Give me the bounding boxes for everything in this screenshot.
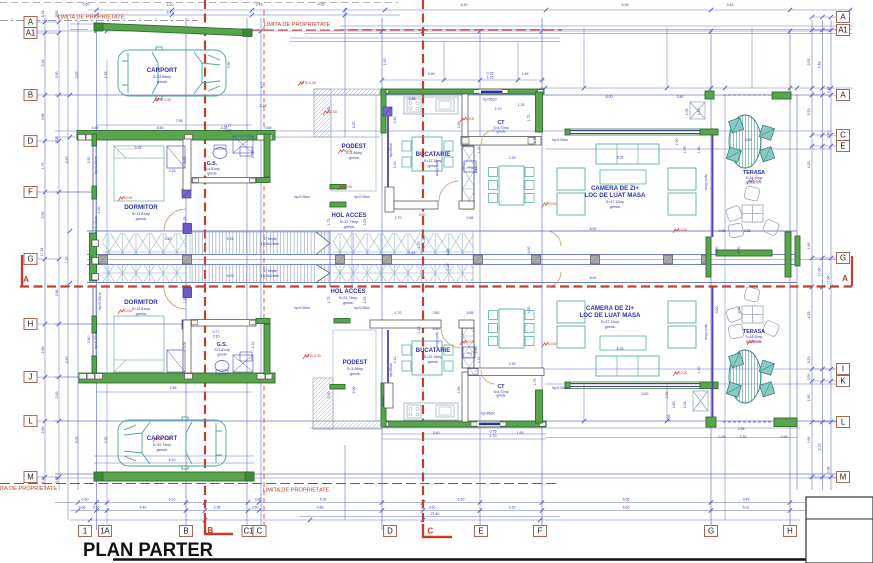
tick marks — [94, 29, 98, 33]
stair arrow lower — [316, 265, 330, 283]
svg-text:0.77: 0.77 — [213, 330, 220, 334]
glazing line kitchen bottom — [387, 330, 389, 407]
window sill podest bottom b — [330, 385, 345, 390]
door arc CT top — [481, 130, 495, 144]
svg-text:2.35: 2.35 — [214, 506, 221, 510]
svg-text:0.65: 0.65 — [467, 216, 474, 220]
svg-text:5.40: 5.40 — [140, 506, 147, 510]
svg-text:DORMITOR: DORMITOR — [124, 204, 158, 211]
svg-text:±0.00: ±0.00 — [753, 179, 762, 183]
svg-text:1.75: 1.75 — [327, 297, 331, 304]
toilet GS top — [213, 148, 227, 159]
svg-text:1.25: 1.25 — [518, 103, 525, 107]
svg-text:2.40: 2.40 — [474, 167, 478, 174]
svg-text:2.90: 2.90 — [87, 337, 91, 344]
terrace post top right — [772, 92, 791, 99]
property limit line bottom — [0, 483, 560, 485]
wall CT right bottom — [536, 390, 543, 423]
svg-text:DORMITOR: DORMITOR — [124, 299, 158, 306]
svg-text:C: C — [257, 527, 263, 536]
svg-text:1.00: 1.00 — [665, 392, 669, 399]
svg-text:LOC DE LUAT MASA: LOC DE LUAT MASA — [579, 312, 641, 319]
svg-text:hp=0.00cm: hp=0.00cm — [552, 138, 568, 142]
terrace post bottom left — [706, 417, 716, 427]
grid bubble D — [24, 136, 37, 147]
svg-text:2.40: 2.40 — [393, 117, 397, 124]
svg-text:3.50: 3.50 — [419, 213, 426, 217]
wall kitchen bottom — [381, 421, 546, 427]
svg-text:2.50: 2.50 — [55, 290, 59, 297]
hatch walkway right upper — [333, 233, 473, 255]
svg-text:1.25: 1.25 — [65, 257, 69, 264]
svg-text:0.45: 0.45 — [92, 126, 99, 130]
svg-text:17.64: 17.64 — [818, 268, 822, 277]
svg-text:6.10: 6.10 — [169, 458, 176, 462]
svg-text:±0.00: ±0.00 — [679, 228, 688, 232]
svg-text:-gresie-: -gresie- — [156, 80, 169, 84]
wall GS partition top — [183, 139, 191, 190]
wicker seating bottom terrace — [725, 286, 780, 339]
svg-text:A: A — [840, 13, 846, 22]
svg-text:2.20: 2.20 — [740, 435, 747, 439]
svg-text:2.00: 2.00 — [352, 387, 356, 394]
svg-text:0.68: 0.68 — [79, 506, 86, 510]
svg-text:1.65: 1.65 — [522, 72, 529, 76]
svg-text:2.25: 2.25 — [260, 104, 267, 108]
door arc bedroom bottom — [164, 287, 186, 309]
terrace table bottom — [729, 350, 761, 403]
fridge top — [464, 161, 476, 172]
grid bubble F — [534, 526, 547, 537]
carport beam top — [94, 23, 252, 36]
svg-text:1.66: 1.66 — [807, 437, 811, 444]
svg-text:1.25: 1.25 — [422, 237, 426, 244]
svg-text:2.25: 2.25 — [363, 297, 367, 304]
wall GS partition bottom — [183, 320, 191, 373]
svg-text:M: M — [840, 473, 847, 482]
svg-text:9.25: 9.25 — [227, 274, 234, 278]
svg-text:±0.00: ±0.00 — [344, 149, 353, 153]
podest hatch top vertical — [314, 89, 331, 137]
svg-text:1.40: 1.40 — [697, 367, 701, 374]
svg-text:1.75: 1.75 — [41, 163, 45, 170]
svg-text:17 trepte: 17 trepte — [263, 237, 276, 241]
wall CT right — [536, 92, 543, 132]
wire vertical grid lines — [44, 15, 46, 490]
hatched posts purple — [182, 189, 191, 198]
svg-text:0.35: 0.35 — [719, 229, 726, 233]
window sill GS top — [256, 178, 270, 183]
svg-text:MITA DE PROPRIETATE: MITA DE PROPRIETATE — [0, 486, 57, 492]
svg-text:1.60: 1.60 — [672, 402, 676, 409]
svg-text:E: E — [478, 527, 483, 536]
svg-text:-gresie-: -gresie- — [156, 448, 169, 452]
svg-text:3.90: 3.90 — [433, 431, 440, 435]
grid bubble K — [837, 376, 850, 387]
svg-text:0.38: 0.38 — [827, 87, 831, 94]
grid bubble B — [24, 90, 37, 101]
svg-text:5.50: 5.50 — [157, 126, 164, 130]
svg-text:1.05: 1.05 — [683, 402, 687, 409]
svg-text:±0.00: ±0.00 — [679, 371, 688, 375]
wicker seating top terrace — [725, 185, 780, 238]
svg-text:2.50: 2.50 — [41, 427, 45, 434]
chimney column bottom unit — [462, 328, 474, 368]
svg-text:2.10: 2.10 — [213, 335, 220, 339]
svg-text:D: D — [28, 137, 34, 146]
svg-text:4.10: 4.10 — [393, 162, 397, 169]
svg-text:L: L — [28, 417, 33, 426]
property limit line top red — [250, 29, 562, 31]
svg-text:2.15: 2.15 — [169, 169, 176, 173]
door hinge post bedroom bottom — [183, 288, 192, 298]
window living top — [570, 130, 700, 132]
svg-text:1.42: 1.42 — [697, 109, 701, 116]
svg-text:0.60: 0.60 — [715, 247, 719, 254]
podest hatch bottom horizontal — [313, 421, 382, 429]
svg-text:-gresie-: -gresie- — [342, 301, 355, 305]
svg-text:5.00: 5.00 — [183, 157, 187, 164]
kitchen table bottom unit — [412, 341, 442, 375]
svg-text:1.10: 1.10 — [477, 147, 481, 154]
grid bubble M — [837, 472, 850, 483]
svg-text:CAMERA DE ZI+: CAMERA DE ZI+ — [591, 185, 639, 192]
svg-text:4.85: 4.85 — [317, 506, 324, 510]
grid bubble F — [24, 187, 37, 198]
wardrobe top bedroom — [167, 146, 185, 168]
window left wall segments — [92, 146, 94, 186]
svg-text:HOL ACCES: HOL ACCES — [330, 289, 365, 295]
carport beam bottom — [94, 472, 254, 481]
svg-text:2.25: 2.25 — [509, 362, 516, 366]
svg-text:hp=0.00cm: hp=0.00cm — [94, 216, 98, 233]
svg-text:-gresie-: -gresie- — [495, 130, 506, 134]
grid bubble B — [180, 526, 193, 537]
svg-text:0.75: 0.75 — [490, 430, 497, 434]
svg-text:G: G — [840, 254, 846, 263]
grid bubble A1 — [24, 28, 37, 39]
axis C red dashed — [422, 0, 424, 524]
svg-text:J: J — [29, 373, 33, 382]
wall terrace right vert — [785, 232, 791, 277]
svg-text:2.00: 2.00 — [327, 107, 331, 114]
svg-text:±0.00: ±0.00 — [753, 340, 762, 344]
hatch walkway left upper — [103, 233, 187, 255]
grid bubble L — [837, 417, 850, 428]
svg-text:LOC DE LUAT MASA: LOC DE LUAT MASA — [584, 192, 646, 199]
svg-text:2.58: 2.58 — [738, 427, 745, 431]
svg-text:17.64x28cm: 17.64x28cm — [261, 274, 280, 278]
svg-text:6.50: 6.50 — [623, 506, 630, 510]
car top carport — [118, 47, 226, 99]
wall terrace edge — [795, 236, 800, 266]
svg-text:A1: A1 — [26, 29, 36, 38]
svg-text:3.90: 3.90 — [227, 62, 231, 69]
svg-text:2.10: 2.10 — [818, 444, 822, 451]
window sill podest bottom a — [334, 319, 350, 324]
svg-text:S=37.12mp: S=37.12mp — [606, 200, 624, 204]
svg-text:1.70: 1.70 — [395, 311, 402, 315]
svg-text:F: F — [538, 527, 543, 536]
wall kitchen bottom post boxes — [382, 422, 389, 426]
svg-text:5.00: 5.00 — [183, 342, 187, 349]
svg-text:1: 1 — [83, 527, 87, 536]
svg-text:±0.00: ±0.00 — [124, 309, 133, 313]
grid bubble D — [384, 526, 397, 537]
wire horizontal grid lines — [88, 9, 852, 11]
bottom black rule — [113, 558, 873, 561]
svg-text:2.45: 2.45 — [409, 251, 416, 255]
svg-text:-gresie-: -gresie- — [495, 394, 506, 398]
svg-text:1.75: 1.75 — [533, 379, 537, 386]
terrace post bottom right — [774, 418, 797, 427]
terrace table top — [729, 115, 761, 168]
wall kitchen top post boxes — [382, 90, 389, 94]
svg-text:CAMERA DE ZI+: CAMERA DE ZI+ — [586, 305, 634, 312]
kitchen table top unit — [412, 137, 442, 171]
svg-text:4.10: 4.10 — [393, 357, 397, 364]
svg-text:B: B — [208, 526, 214, 535]
svg-text:0.90: 0.90 — [807, 374, 811, 381]
svg-text:9.05: 9.05 — [75, 72, 79, 79]
svg-text:CARPORT: CARPORT — [147, 67, 178, 74]
wall CT bottom horizontal — [461, 137, 541, 146]
wall CT partition bottom vertical — [462, 372, 468, 422]
grid bubble C — [253, 526, 266, 537]
glazing line kitchen top — [387, 110, 389, 190]
svg-text:H: H — [787, 527, 793, 536]
svg-text:6.30: 6.30 — [461, 3, 468, 7]
svg-text:3.50: 3.50 — [429, 506, 436, 510]
svg-text:hp=0.00cm: hp=0.00cm — [435, 332, 439, 348]
svg-text:B: B — [183, 527, 188, 536]
svg-text:4.25: 4.25 — [807, 162, 811, 169]
svg-text:PLAN PARTER: PLAN PARTER — [83, 539, 213, 561]
shower GS top — [233, 136, 253, 153]
hatch walkway left lower — [103, 264, 187, 283]
svg-text:7.55: 7.55 — [176, 119, 183, 123]
svg-text:0.65: 0.65 — [265, 126, 272, 130]
wall CT top horizontal bottom-unit — [468, 368, 544, 376]
svg-text:9.25: 9.25 — [227, 237, 234, 241]
grid bubble 1 — [79, 526, 92, 537]
washbasin GS top — [240, 147, 252, 156]
railing dashes terrace top — [723, 94, 773, 96]
grid bubble E — [837, 141, 850, 152]
svg-text:S=4.81mp: S=4.81mp — [214, 348, 229, 352]
svg-text:0.20: 0.20 — [93, 506, 100, 510]
svg-text:6.05: 6.05 — [623, 498, 630, 502]
svg-text:1.10: 1.10 — [477, 357, 481, 364]
grid bubble C — [837, 130, 850, 141]
dining table top unit — [499, 166, 524, 205]
svg-text:C: C — [428, 527, 434, 536]
door arc bedroom top — [164, 209, 186, 231]
svg-text:0.38: 0.38 — [827, 467, 831, 474]
grid bubble E — [475, 526, 488, 537]
svg-text:hp=0.00cm: hp=0.00cm — [354, 306, 370, 310]
svg-text:5.01: 5.01 — [743, 506, 750, 510]
svg-text:4.25: 4.25 — [807, 312, 811, 319]
svg-text:1.00: 1.00 — [446, 264, 450, 271]
svg-text:0.45: 0.45 — [89, 255, 93, 262]
door hinge post bedroom top — [183, 224, 192, 234]
svg-text:hp=85cm: hp=85cm — [481, 412, 496, 416]
svg-text:4.00: 4.00 — [527, 247, 531, 254]
svg-text:-gresie-: -gresie- — [206, 172, 217, 176]
svg-text:0.90: 0.90 — [55, 72, 59, 79]
wall kitchen left bottom — [381, 383, 386, 427]
svg-text:8.00: 8.00 — [606, 95, 613, 99]
svg-text:0.50: 0.50 — [252, 506, 259, 510]
wall living bottom right segment — [700, 382, 718, 389]
svg-text:BUCATARIE: BUCATARIE — [416, 348, 450, 354]
svg-text:A: A — [842, 274, 848, 283]
svg-text:2.00: 2.00 — [327, 392, 331, 399]
svg-text:2.10: 2.10 — [225, 129, 232, 133]
podest room bottom outline — [333, 330, 376, 421]
wall bedroom bottom (row J) — [79, 373, 275, 383]
svg-text:2.02: 2.02 — [807, 59, 811, 66]
svg-text:hp=0.00cm: hp=0.00cm — [94, 156, 98, 173]
door arc kitchen bottom — [441, 328, 461, 348]
svg-text:0.45: 0.45 — [256, 3, 263, 7]
svg-text:I: I — [842, 365, 844, 374]
svg-text:0.35: 0.35 — [719, 435, 726, 439]
wall kitchen-hall top unit — [385, 187, 394, 212]
svg-text:1.60: 1.60 — [675, 139, 679, 146]
door arc kitchen top — [439, 181, 459, 201]
svg-text:LIMITA DE PROPRIETATE: LIMITA DE PROPRIETATE — [263, 488, 330, 494]
stair treads lower flight — [190, 265, 330, 283]
svg-text:4.25: 4.25 — [65, 357, 69, 364]
svg-text:S=13.81mp: S=13.81mp — [132, 212, 150, 216]
svg-text:27.40: 27.40 — [431, 512, 440, 516]
svg-text:A: A — [840, 91, 846, 100]
svg-text:1.89: 1.89 — [807, 243, 811, 250]
svg-text:-gresie-: -gresie- — [604, 325, 617, 329]
podest hatch top horizontal — [314, 89, 380, 95]
svg-text:1.05: 1.05 — [685, 109, 689, 116]
svg-text:hp=0.00cm: hp=0.00cm — [94, 331, 98, 348]
grid bubble M — [24, 472, 37, 483]
svg-text:1.40: 1.40 — [697, 147, 701, 154]
stair arrow upper — [316, 232, 330, 255]
svg-text:1.05: 1.05 — [683, 147, 687, 154]
grid bubble A1 — [837, 25, 850, 36]
svg-text:2.48: 2.48 — [818, 62, 822, 69]
wall GS horizontal top — [192, 178, 256, 184]
svg-text:3.90: 3.90 — [428, 72, 435, 76]
svg-text:1.75: 1.75 — [533, 137, 537, 144]
svg-text:C: C — [840, 131, 846, 140]
window sill podest top a — [330, 185, 346, 190]
svg-text:17.64: 17.64 — [827, 276, 831, 285]
grid bubble J — [24, 372, 37, 383]
svg-text:D: D — [387, 527, 393, 536]
svg-text:+Fg: +Fg — [467, 166, 473, 170]
svg-text:17.64x28cm: 17.64x28cm — [261, 242, 280, 246]
fridge bottom — [463, 347, 475, 358]
grid bubble G — [705, 526, 718, 537]
railing dashes terrace bottom — [723, 421, 773, 423]
svg-text:-gresie-: -gresie- — [135, 217, 148, 221]
glazing living-terrace top — [712, 135, 714, 237]
grid bubble A — [837, 12, 850, 23]
wall terrace corridor vert — [706, 237, 711, 277]
svg-text:3.98: 3.98 — [41, 114, 45, 121]
svg-text:2.25: 2.25 — [509, 506, 516, 510]
grid bubble G — [837, 253, 850, 264]
svg-text:BUCATARIE: BUCATARIE — [416, 152, 450, 158]
svg-text:2.50: 2.50 — [41, 347, 45, 354]
wall GS bottom right vertical — [264, 324, 270, 374]
svg-text:1.00: 1.00 — [97, 207, 101, 214]
svg-text:-gresie-: -gresie- — [349, 372, 362, 376]
svg-text:S=18.40mp: S=18.40mp — [746, 335, 763, 339]
axis A red dashed center — [20, 285, 852, 287]
svg-text:G: G — [708, 527, 714, 536]
door arc CT bottom — [481, 370, 495, 384]
svg-text:2.25: 2.25 — [509, 156, 516, 160]
sofa set bottom unit — [596, 356, 659, 376]
property limit line top gray — [0, 20, 198, 22]
svg-text:5.23: 5.23 — [807, 357, 811, 364]
svg-text:1.65: 1.65 — [517, 431, 524, 435]
svg-text:S=4.81mp: S=4.81mp — [204, 167, 219, 171]
svg-text:hp=0.00cm: hp=0.00cm — [435, 160, 439, 176]
svg-text:±0.00: ±0.00 — [344, 185, 353, 189]
svg-text:hp=0.00cm: hp=0.00cm — [704, 324, 708, 340]
svg-text:PODEST: PODEST — [343, 360, 368, 366]
svg-text:2.48: 2.48 — [41, 60, 45, 67]
svg-text:S=20.74mp: S=20.74mp — [153, 443, 171, 447]
svg-text:0.80: 0.80 — [433, 311, 440, 315]
wall left corridor post markers — [92, 240, 99, 247]
svg-text:2.35: 2.35 — [104, 72, 108, 79]
svg-text:0.60: 0.60 — [83, 3, 90, 7]
svg-text:S=13.81mp: S=13.81mp — [132, 307, 150, 311]
wall left post 2 — [92, 186, 97, 199]
corner brace bottom terrace — [693, 391, 708, 411]
svg-text:-gresie-: -gresie- — [427, 360, 440, 364]
svg-text:6.10: 6.10 — [169, 498, 176, 502]
podest hatch bottom vertical — [313, 378, 333, 429]
svg-text:2.00: 2.00 — [352, 122, 356, 129]
svg-text:5.23: 5.23 — [807, 109, 811, 116]
svg-text:1.75: 1.75 — [327, 219, 331, 226]
svg-text:8.25: 8.25 — [617, 156, 624, 160]
svg-text:1.25: 1.25 — [183, 297, 187, 304]
svg-text:2.18: 2.18 — [41, 477, 45, 484]
svg-text:3.77: 3.77 — [260, 82, 264, 89]
svg-text:K: K — [840, 377, 846, 386]
svg-text:3.46: 3.46 — [677, 95, 684, 99]
svg-text:6.10: 6.10 — [167, 11, 174, 15]
grid bubble 1A — [99, 526, 112, 537]
window sill podest top b — [330, 202, 346, 207]
svg-text:hp=85cm: hp=85cm — [389, 143, 393, 158]
svg-text:S=23.74mp: S=23.74mp — [339, 296, 357, 300]
svg-text:0.35: 0.35 — [667, 415, 671, 422]
wire top dash line — [0, 2, 398, 4]
window living bottom — [570, 383, 700, 385]
wall living bottom cap — [565, 382, 570, 389]
svg-text:hp=85cm: hp=85cm — [389, 363, 393, 378]
svg-text:-gresie-: -gresie- — [216, 353, 227, 357]
svg-text:5.85: 5.85 — [467, 311, 474, 315]
svg-text:-gresie-: -gresie- — [609, 205, 622, 209]
